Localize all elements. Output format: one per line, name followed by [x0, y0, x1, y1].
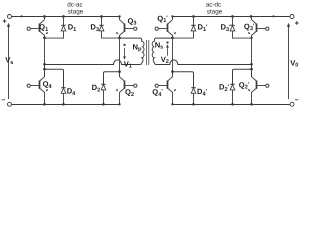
label Q4prime [152, 88, 163, 98]
wire D3 to leg B [102, 37, 120, 39]
transistor Q2prime [248, 72, 269, 105]
node right inner to D4prime junction [171, 70, 174, 73]
node D3prime rail junction [231, 15, 234, 18]
node leg A to D4 junction [43, 68, 46, 71]
wire D1 to leg A [45, 37, 64, 39]
svg-text:−: − [1, 97, 5, 104]
node D1prime rail junction [192, 15, 195, 18]
wire D3prime to right outer leg [233, 37, 252, 39]
node right outer to D2prime junction [250, 68, 253, 71]
wire bottom rail right [173, 104, 290, 106]
label V1 [124, 60, 132, 70]
node leg B to D2 junction [118, 70, 121, 73]
node Q4 emitter rail junction [43, 103, 46, 106]
svg-text:stage: stage [68, 8, 84, 15]
label Q1 [39, 23, 48, 33]
node D4 rail junction [62, 103, 65, 106]
label Q1prime [157, 14, 168, 24]
node rail corner at leg B [118, 15, 120, 17]
node leg A to transformer junction [43, 63, 46, 66]
transistor Q3 [116, 17, 137, 38]
output voltage arrow V0 [287, 23, 290, 99]
label Q2prime [239, 81, 250, 91]
wire primary bottom to leg A with crossover hop [45, 60, 140, 65]
node stray dot top-left rail [20, 15, 22, 17]
transistor Q1 [27, 17, 48, 38]
wire leg A to D4 [45, 69, 64, 87]
wire D1prime to right inner leg [173, 37, 194, 39]
diode D3prime [230, 17, 235, 39]
transistor Q2 [116, 72, 137, 105]
label D2 [92, 83, 101, 93]
diode D4 [61, 88, 66, 105]
wire D2prime to right outer leg [233, 69, 252, 84]
diode D2 [101, 84, 106, 104]
wire D2 to leg B [104, 72, 120, 84]
node D3 rail junction [100, 15, 103, 18]
node D2prime rail junction [231, 103, 234, 106]
transformer primary winding Np [140, 40, 144, 65]
label D1prime [198, 23, 209, 33]
input terminal + (top left) [2, 15, 11, 26]
node Q3prime collector rail junction [250, 15, 253, 18]
output terminal + (top right) [290, 15, 300, 28]
svg-text:+: + [2, 17, 7, 26]
voltage arrow V2 [166, 44, 169, 56]
transistor Q4prime [155, 72, 176, 105]
label Q3prime [244, 22, 255, 32]
wire secondary bottom to right outer leg with crossover hop [157, 60, 252, 65]
wire top rail left [12, 16, 120, 18]
diode D1prime [191, 17, 196, 39]
wire top rail right [173, 16, 290, 18]
input terminal - (bottom left) [1, 97, 11, 106]
node D1 rail junction [62, 15, 65, 18]
transistor Q4 [27, 72, 48, 105]
output terminal - (bottom right) [290, 97, 299, 106]
transformer core [147, 40, 149, 65]
text ac-dc stage label [206, 1, 223, 15]
node Q2prime emitter rail junction [250, 103, 253, 106]
node D4prime rail junction [192, 103, 195, 106]
label D1 [68, 23, 77, 33]
label D2prime [219, 83, 230, 93]
wire right inner leg to D4prime [173, 72, 194, 88]
svg-text:ac-dc: ac-dc [206, 1, 221, 8]
wire leg A midpoint [44, 35, 46, 77]
diode D2prime [230, 84, 235, 104]
wire right outer leg midpoint [251, 35, 253, 77]
diode D1 [61, 17, 66, 39]
text dc-ac stage label [67, 1, 83, 15]
node right inner leg bottom corner [171, 103, 173, 105]
label Ns [155, 41, 164, 51]
svg-text:stage: stage [207, 8, 223, 15]
wire secondary top to right leg [154, 38, 172, 40]
wire leg B midpoint [119, 35, 121, 77]
label Q2 [125, 88, 134, 98]
wire bottom rail left [12, 104, 120, 106]
node stray dot top-right rail [272, 15, 274, 17]
label D4prime [197, 87, 208, 97]
diode D3 [99, 17, 104, 39]
polarity dot primary [123, 44, 125, 46]
svg-text:+: + [295, 18, 300, 27]
node Q1prime collector rail junction [171, 15, 173, 17]
source voltage arrow Vs [7, 23, 10, 99]
wire right inner leg midpoint [172, 35, 174, 77]
label V0 [290, 59, 298, 69]
node right inner midpoint junction [171, 37, 174, 40]
label Np [133, 43, 142, 53]
wire leg B to primary top [120, 38, 142, 40]
node rail corner bottom leg B [118, 103, 120, 105]
label D3prime [221, 23, 232, 33]
node D2 rail junction [102, 103, 105, 106]
label Vs [5, 56, 13, 66]
label D3 [90, 23, 99, 33]
voltage arrow V1 [123, 48, 126, 60]
label Q4 [43, 80, 53, 90]
node right outer to transformer junction [250, 63, 253, 66]
diode D4prime [191, 88, 196, 105]
label Q3 [127, 17, 136, 27]
node right outer leg D3prime wire junction [250, 37, 252, 39]
polarity dot secondary [166, 41, 168, 43]
transistor Q3prime [248, 17, 269, 38]
node Q1-D1 junction [43, 37, 46, 40]
transformer secondary winding Ns [152, 40, 156, 65]
node leg B transformer junction [118, 37, 121, 40]
svg-text:dc-ac: dc-ac [67, 1, 82, 8]
node Q1 collector rail junction [43, 15, 46, 18]
label V2 [161, 55, 169, 65]
transistor Q1prime [155, 17, 176, 38]
label D4 [67, 87, 76, 97]
svg-text:−: − [295, 97, 299, 104]
